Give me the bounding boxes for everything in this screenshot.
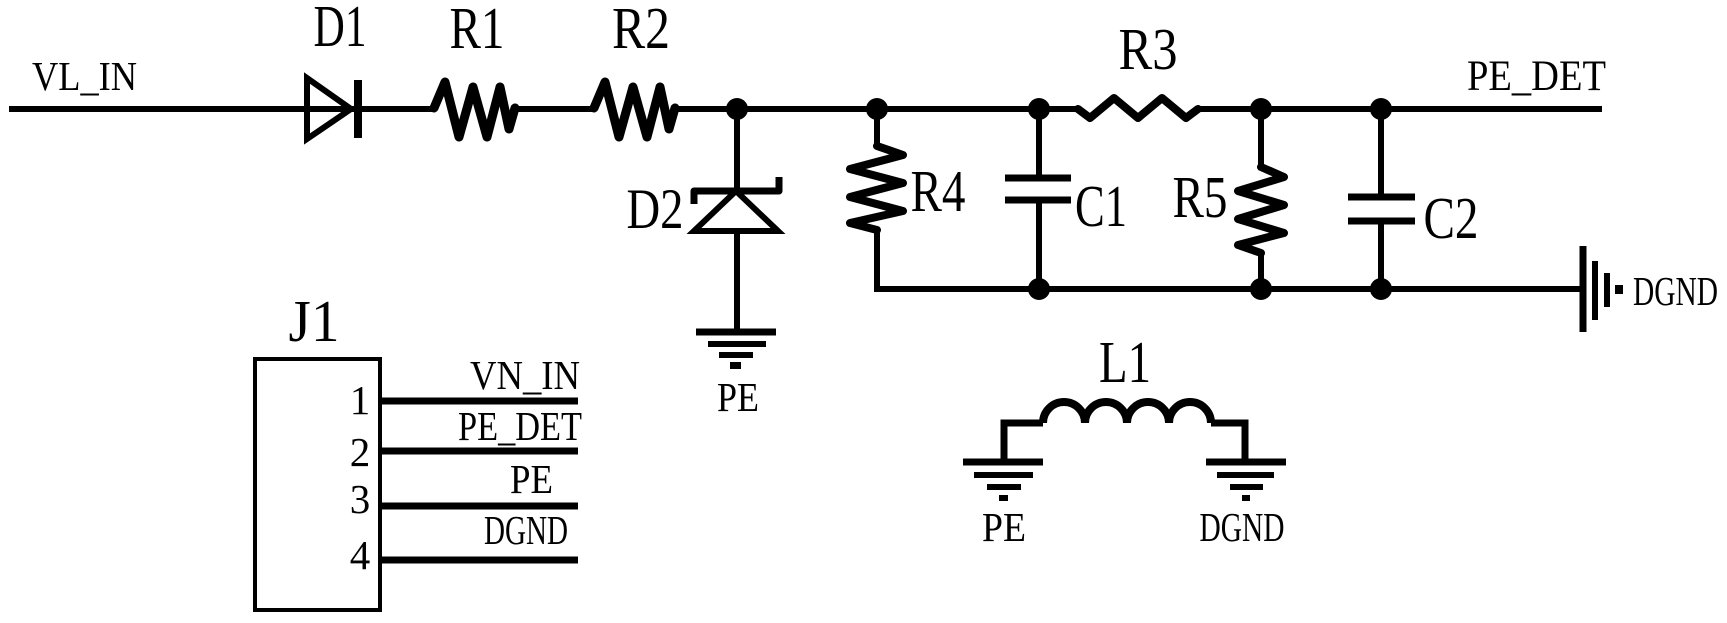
wire C2 to bottom rail	[1378, 221, 1384, 289]
junction node D (R5 top)	[1250, 98, 1272, 120]
junction C1 bottom	[1028, 278, 1050, 300]
svg-text:R2: R2	[612, 0, 670, 61]
diode D1	[307, 78, 358, 139]
wire R2 to node A	[675, 106, 737, 112]
ground PE (L1 left)	[963, 462, 1043, 501]
inductor L1 coil	[1043, 402, 1211, 423]
svg-text:PE_DET: PE_DET	[1467, 53, 1606, 100]
svg-text:C1: C1	[1075, 173, 1127, 239]
wire R1 to R2	[515, 106, 596, 112]
wire node D to node E	[1261, 106, 1381, 112]
svg-text:D2: D2	[627, 178, 684, 241]
svg-text:DGND: DGND	[1200, 504, 1285, 550]
wire node B to node C	[877, 106, 1039, 112]
svg-text:D1: D1	[314, 0, 367, 59]
wire R4 to bottom rail	[874, 228, 880, 289]
svg-text:VN_IN: VN_IN	[470, 352, 580, 398]
svg-text:3: 3	[350, 476, 371, 522]
wire R3 to node D	[1196, 106, 1261, 112]
svg-text:PE: PE	[982, 504, 1026, 550]
svg-text:J1: J1	[289, 288, 340, 354]
wire C1 to bottom rail	[1036, 200, 1042, 289]
junction node A (D2 tap)	[726, 98, 748, 120]
svg-text:PE: PE	[717, 374, 759, 420]
svg-text:1: 1	[350, 377, 371, 423]
wire D2 to PE ground	[734, 231, 740, 331]
pin 2 wire	[380, 448, 578, 455]
ground PE (below D2)	[696, 332, 776, 369]
resistor R3	[1078, 98, 1198, 118]
wire L1 right lead	[1211, 423, 1245, 462]
ground DGND (L1 right)	[1206, 462, 1286, 501]
svg-text:C2: C2	[1424, 185, 1479, 251]
resistor R1	[434, 82, 515, 137]
bottom rail wire	[874, 286, 1581, 292]
wire R5 to bottom rail	[1258, 251, 1264, 289]
junction node B (R4 top)	[866, 98, 888, 120]
resistor R5	[1238, 167, 1284, 253]
svg-text:VL_IN: VL_IN	[32, 53, 137, 99]
junction R5 bottom	[1250, 278, 1272, 300]
svg-text:PE_DET: PE_DET	[458, 403, 582, 449]
zener diode D2	[694, 177, 779, 231]
pin 3 wire	[380, 503, 578, 510]
wire node A to node B	[737, 106, 877, 112]
junction C2 bottom	[1370, 278, 1392, 300]
ground DGND (right, rotated)	[1583, 246, 1623, 332]
svg-text:DGND: DGND	[1633, 268, 1718, 314]
wire D1 to R1	[358, 106, 436, 112]
connector J1 box	[255, 359, 380, 610]
capacitor C1	[1005, 178, 1071, 200]
capacitor C2	[1348, 197, 1415, 221]
svg-text:L1: L1	[1099, 329, 1151, 395]
resistor R4	[850, 146, 903, 230]
svg-text:R5: R5	[1173, 164, 1228, 230]
svg-text:R1: R1	[450, 0, 505, 61]
wire node C to C1	[1036, 109, 1042, 177]
svg-text:2: 2	[350, 429, 371, 475]
svg-text:4: 4	[350, 532, 371, 578]
wire node E to C2	[1378, 109, 1384, 196]
wire node B to R4	[874, 109, 880, 148]
wire node C to R3	[1039, 106, 1080, 112]
svg-text:R4: R4	[911, 158, 966, 224]
junction node E (C2 top)	[1370, 98, 1392, 120]
svg-text:PE: PE	[510, 456, 553, 502]
resistor R2	[594, 82, 675, 137]
wire node A to D2	[734, 109, 740, 191]
wire VL_IN to D1	[9, 106, 358, 112]
wire L1 left lead	[1004, 423, 1043, 462]
wire node D to R5	[1258, 109, 1264, 169]
wire node E to PE_DET	[1381, 106, 1602, 112]
pin 1 wire	[380, 398, 578, 405]
pin 4 wire	[380, 557, 578, 564]
svg-text:DGND: DGND	[484, 507, 568, 553]
junction node C (C1 top)	[1028, 98, 1050, 120]
svg-text:R3: R3	[1119, 16, 1178, 82]
